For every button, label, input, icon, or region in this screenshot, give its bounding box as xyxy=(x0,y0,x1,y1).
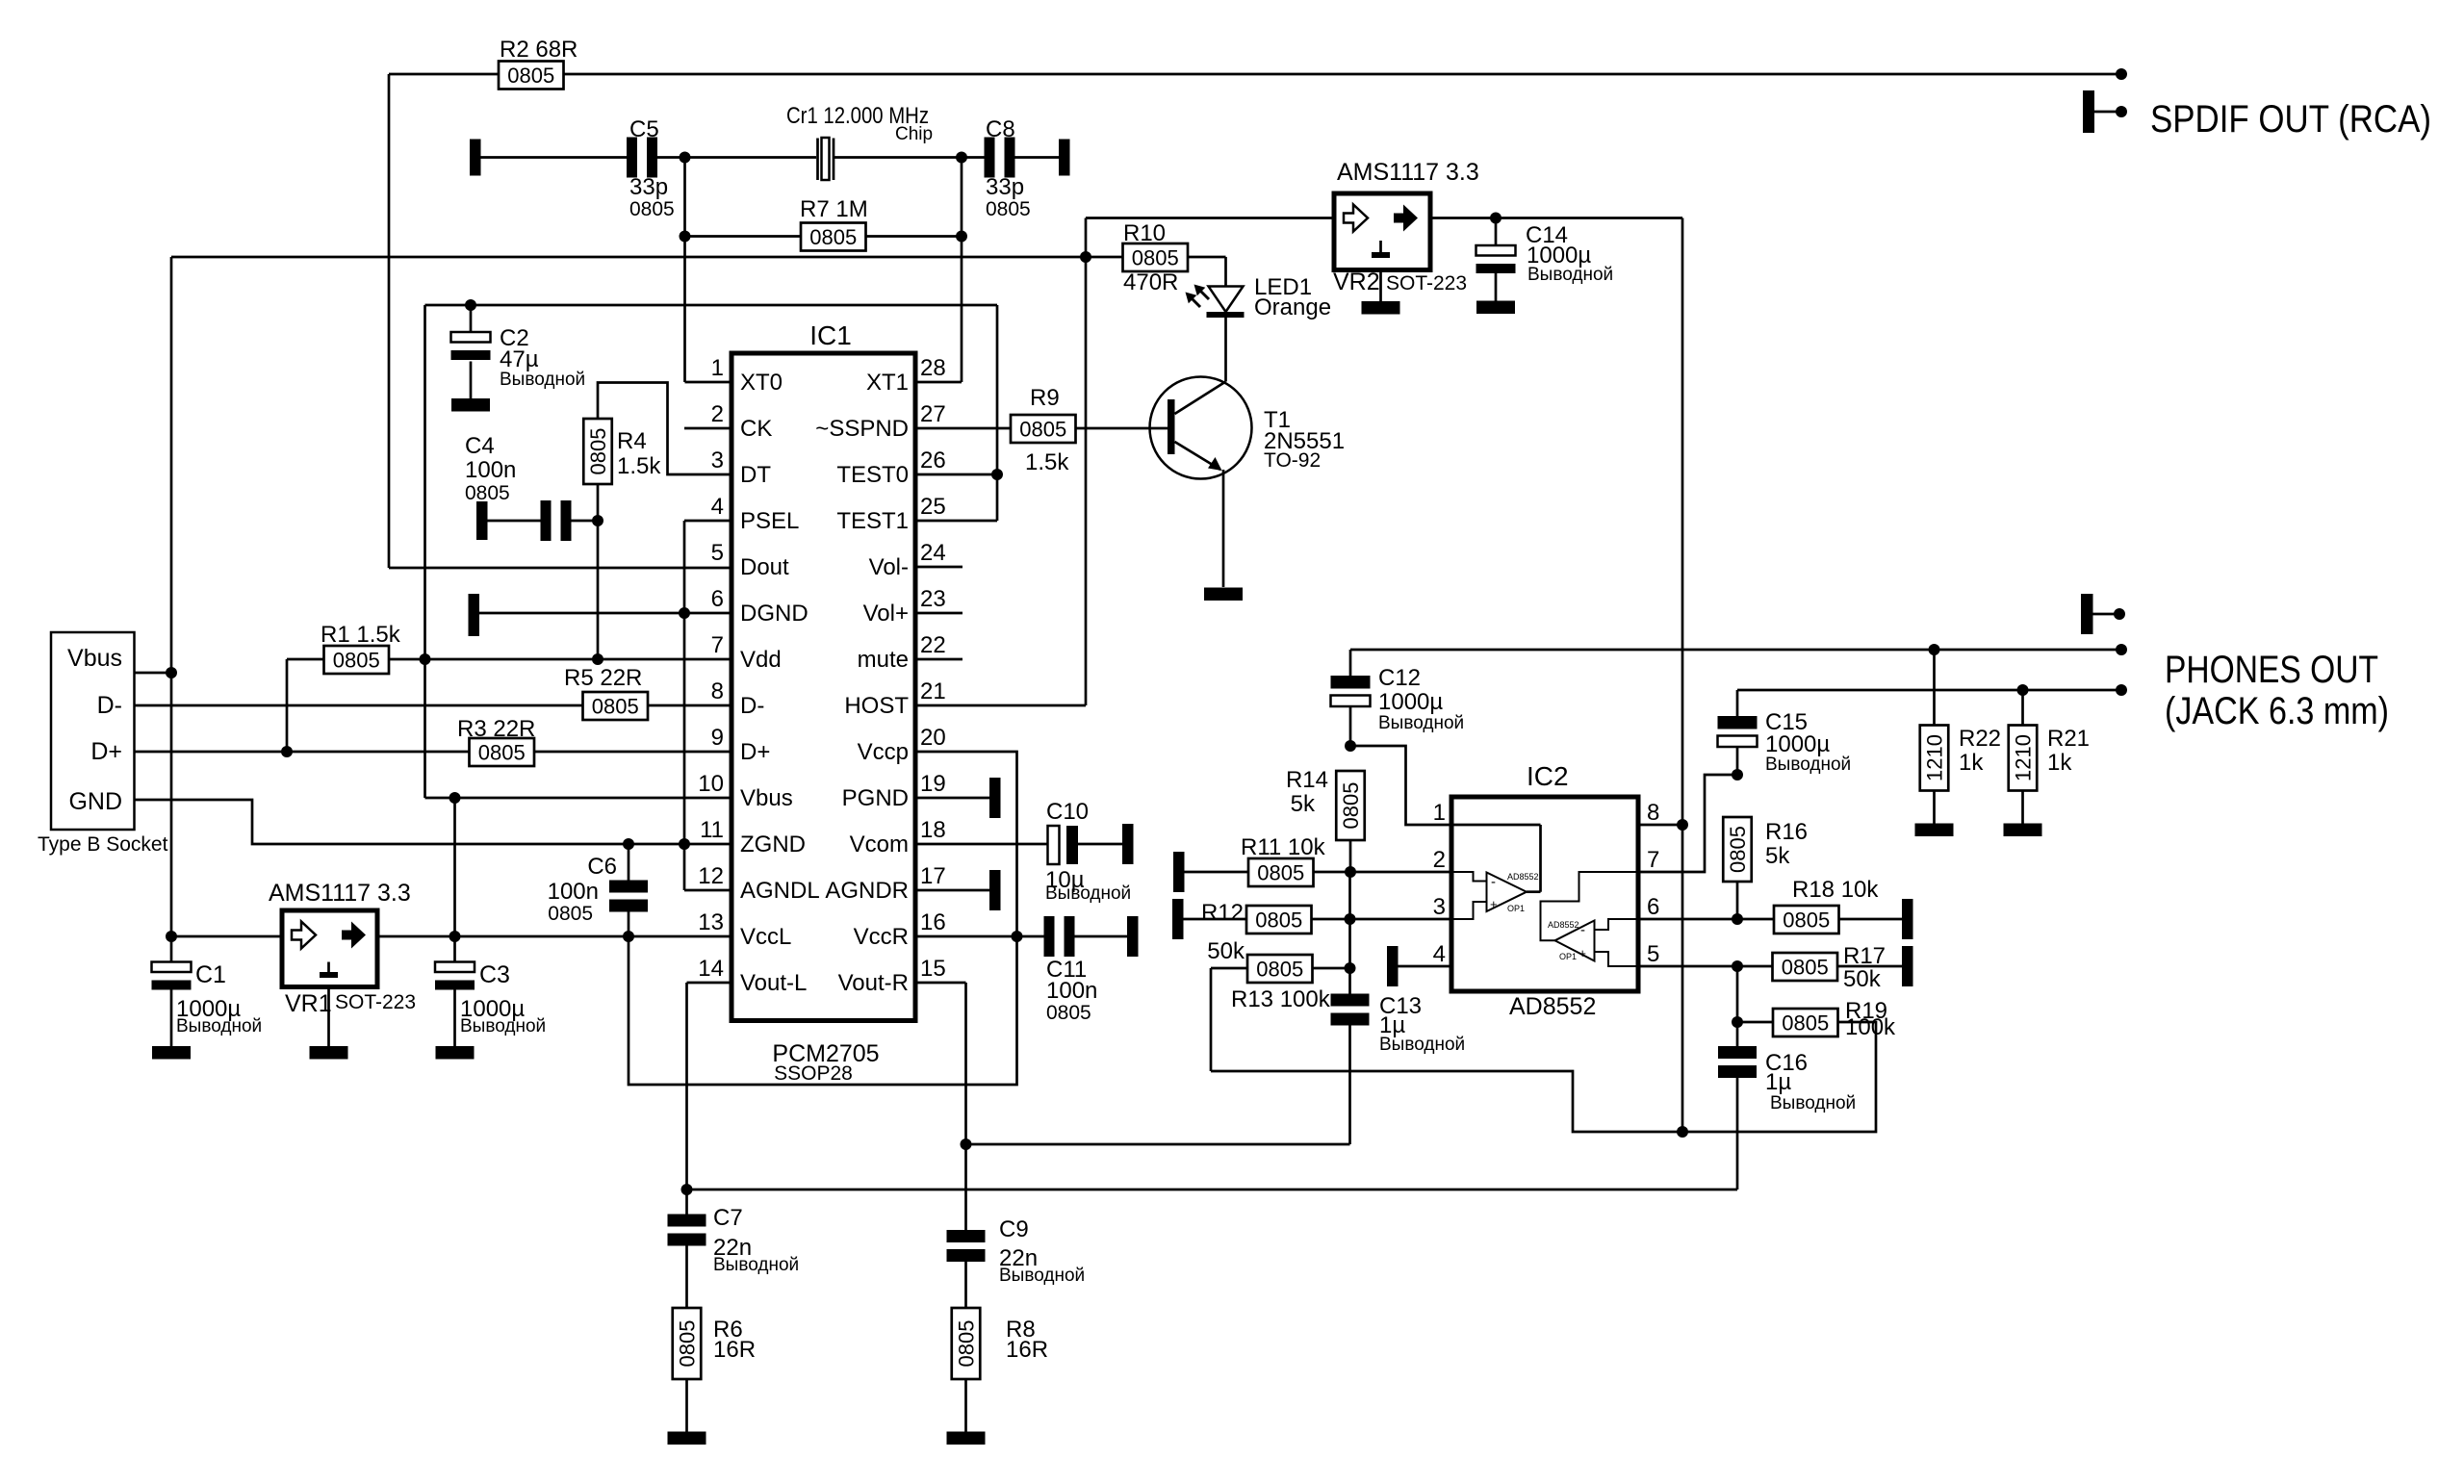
svg-text:0805: 0805 xyxy=(1256,958,1303,982)
node Vbus 3V3 corner xyxy=(449,792,461,804)
node HOST junction xyxy=(1080,251,1091,263)
svg-text:0805: 0805 xyxy=(955,1320,979,1368)
svg-text:1000µ: 1000µ xyxy=(1765,731,1830,757)
svg-text:OP1: OP1 xyxy=(1507,904,1525,913)
svg-text:4: 4 xyxy=(711,494,724,520)
svg-text:1µ: 1µ xyxy=(1765,1069,1791,1095)
svg-text:0805: 0805 xyxy=(1782,956,1829,980)
wire R5 to pin 8 xyxy=(648,704,731,707)
node RCA pin xyxy=(2116,106,2127,117)
svg-text:Выводной: Выводной xyxy=(1045,883,1131,904)
svg-text:D-: D- xyxy=(97,692,122,719)
wire R6 to ground xyxy=(685,1379,688,1432)
wire C12 node to IC2 pin 1 xyxy=(1350,746,1451,825)
svg-text:0805: 0805 xyxy=(1783,908,1830,933)
svg-text:R16: R16 xyxy=(1765,819,1808,845)
svg-text:0805: 0805 xyxy=(478,741,526,765)
node ZGND C6 xyxy=(623,838,634,850)
wire R4 bottom to Vdd xyxy=(597,484,600,659)
wire SSPND to R9 xyxy=(915,427,1011,430)
ground right of R17 xyxy=(1902,946,1913,986)
node R19 C16 xyxy=(1732,1016,1743,1028)
op-amp U2A xyxy=(1451,825,1541,919)
wire R11 left lead xyxy=(1185,871,1249,874)
jack shield connector xyxy=(2081,594,2119,634)
svg-text:Vbus: Vbus xyxy=(67,645,122,672)
capacitor C9 xyxy=(947,1216,1086,1286)
svg-text:Dout: Dout xyxy=(740,554,789,580)
svg-text:470R: 470R xyxy=(1123,269,1178,295)
svg-text:R3 22R: R3 22R xyxy=(457,716,535,742)
svg-text:19: 19 xyxy=(920,771,946,797)
svg-text:20: 20 xyxy=(920,725,946,751)
label SPDIF OUT (RCA) xyxy=(2150,98,2431,141)
wire T1 emitter to ground xyxy=(1222,470,1225,587)
node R14 pin2 xyxy=(1345,866,1356,878)
wire C5 to crystal xyxy=(657,156,816,159)
svg-text:11: 11 xyxy=(700,817,724,843)
svg-text:47µ: 47µ xyxy=(500,346,539,372)
svg-text:Выводной: Выводной xyxy=(999,1266,1085,1286)
svg-text:C12: C12 xyxy=(1378,665,1421,691)
node phones ring R21 xyxy=(2017,684,2029,696)
node pin3 vertical xyxy=(1345,913,1356,925)
wire Vbus vertical and HOST feed xyxy=(171,257,1086,673)
svg-text:Vccp: Vccp xyxy=(858,739,909,765)
svg-text:PSEL: PSEL xyxy=(740,508,799,534)
resistor R8 xyxy=(952,1308,1048,1379)
capacitor C5 xyxy=(627,116,675,220)
svg-text:R4: R4 xyxy=(617,428,647,454)
wire R4 top to DT pin 3 xyxy=(598,383,731,475)
wire Vout-L pin 14 to C7 xyxy=(687,983,732,1215)
wire supply vertical lower xyxy=(1681,825,1684,1132)
svg-text:VccR: VccR xyxy=(854,924,909,950)
svg-text:8: 8 xyxy=(1647,800,1659,826)
node phones tip R22 xyxy=(1929,644,1940,655)
svg-text:0805: 0805 xyxy=(629,198,675,220)
svg-text:16R: 16R xyxy=(713,1337,756,1363)
svg-text:IC1: IC1 xyxy=(809,320,852,350)
capacitor C13 xyxy=(1331,993,1466,1055)
svg-text:9: 9 xyxy=(711,725,724,751)
svg-text:mute: mute xyxy=(858,647,909,673)
wire Vout-L bus xyxy=(687,1189,1738,1191)
node XT0 crystal junction xyxy=(680,152,691,164)
svg-text:Выводной: Выводной xyxy=(1765,755,1851,775)
op-amp U2B xyxy=(1541,872,1639,966)
svg-text:0805: 0805 xyxy=(1339,782,1363,830)
wire R9 to T1 base xyxy=(1076,427,1168,430)
wire pin5 to R19 C16 xyxy=(1736,966,1739,1022)
svg-text:R22: R22 xyxy=(1959,726,2001,752)
svg-text:Выводной: Выводной xyxy=(1527,265,1613,285)
ground IC2 pin 4 xyxy=(1387,946,1451,986)
svg-text:SOT-223: SOT-223 xyxy=(1386,272,1467,294)
svg-text:ZGND: ZGND xyxy=(740,832,806,857)
svg-text:5k: 5k xyxy=(1291,791,1316,817)
wire R17 to ground xyxy=(1837,965,1902,968)
svg-text:6: 6 xyxy=(1647,894,1659,920)
wire C4 to R4 net xyxy=(572,520,599,523)
svg-text:0805: 0805 xyxy=(592,695,639,719)
svg-text:1.5k: 1.5k xyxy=(617,453,661,479)
svg-text:13: 13 xyxy=(698,909,724,935)
connector USB Type B socket xyxy=(38,632,168,856)
node R1 right xyxy=(420,653,431,665)
svg-text:AMS1117 3.3: AMS1117 3.3 xyxy=(269,880,411,907)
svg-text:D+: D+ xyxy=(740,739,770,765)
ground below T1 xyxy=(1204,588,1243,601)
ground PGND pin 19 xyxy=(915,778,1001,818)
svg-text:5k: 5k xyxy=(1765,843,1790,869)
svg-text:3: 3 xyxy=(1433,894,1446,920)
wire Vbus pin 10 line xyxy=(425,797,732,800)
svg-text:-: - xyxy=(1580,922,1585,938)
svg-text:AD8552: AD8552 xyxy=(1509,993,1596,1020)
wire C9 to R8 xyxy=(964,1262,967,1309)
wire Vout-R bus xyxy=(966,1143,1350,1146)
ground left of R11 xyxy=(1173,852,1185,892)
wire R16 to pin6 line xyxy=(1736,882,1739,919)
svg-text:0805: 0805 xyxy=(1782,1011,1829,1036)
svg-text:Выводной: Выводной xyxy=(500,370,585,390)
svg-text:7: 7 xyxy=(1647,847,1659,873)
svg-text:16: 16 xyxy=(920,909,946,935)
ground below C3 xyxy=(436,1046,475,1060)
svg-text:AGNDR: AGNDR xyxy=(825,878,909,904)
wire Dout to R2 left vertical xyxy=(389,74,499,568)
resistor R19 xyxy=(1737,998,1896,1040)
wire Dout line pin 5 xyxy=(389,567,731,570)
svg-text:Выводной: Выводной xyxy=(713,1255,799,1275)
RCA connector SPDIF xyxy=(2083,90,2121,133)
svg-text:24: 24 xyxy=(920,540,946,566)
ground below R8 xyxy=(947,1432,986,1446)
svg-text:7: 7 xyxy=(711,632,724,658)
resistor R7 xyxy=(800,196,868,251)
svg-text:0805: 0805 xyxy=(1257,861,1304,885)
svg-text:Vol-: Vol- xyxy=(869,554,909,580)
svg-text:SSOP28: SSOP28 xyxy=(774,1062,853,1085)
node R13 vertical xyxy=(1345,962,1356,974)
ground right of C11 xyxy=(1127,916,1139,957)
wire R14 to pin 2 line xyxy=(1349,840,1352,872)
resistor R21 xyxy=(2009,690,2090,824)
node Vccp VccR junction xyxy=(1012,931,1023,942)
svg-text:8: 8 xyxy=(711,678,724,704)
svg-text:VccL: VccL xyxy=(740,924,791,950)
wire R10 left lead xyxy=(1086,256,1123,259)
node phones tip end xyxy=(2116,644,2127,655)
transistor T1 2N5551 xyxy=(1150,377,1346,479)
svg-text:17: 17 xyxy=(920,863,946,889)
wire amp supply vertical xyxy=(1681,218,1684,826)
resistor R4 xyxy=(583,419,661,484)
svg-text:SPDIF OUT (RCA): SPDIF OUT (RCA) xyxy=(2150,98,2431,141)
ground right of R18 xyxy=(1902,899,1913,939)
ground below VR1 xyxy=(310,1046,348,1060)
capacitor C1 xyxy=(152,936,263,1046)
svg-text:0805: 0805 xyxy=(548,903,593,925)
svg-text:DT: DT xyxy=(740,462,771,488)
svg-text:HOST: HOST xyxy=(844,693,909,719)
wire 3V3 vertical to rail xyxy=(453,798,456,936)
svg-text:VR2: VR2 xyxy=(1333,269,1380,295)
wire phones ring bus xyxy=(1737,689,2121,692)
svg-text:50k: 50k xyxy=(1207,938,1245,964)
wire R8 to ground xyxy=(964,1379,967,1432)
svg-text:Выводной: Выводной xyxy=(1379,1035,1465,1055)
wire XT0 vertical to pin 1 xyxy=(685,158,732,383)
svg-text:25: 25 xyxy=(920,494,946,520)
svg-text:CK: CK xyxy=(740,416,772,442)
wire phones tip bus xyxy=(1350,649,2121,652)
svg-text:23: 23 xyxy=(920,586,946,612)
node phones ring end xyxy=(2116,684,2127,696)
wire LED1 to T1 collector xyxy=(1224,318,1227,382)
wire pin8 stub xyxy=(1638,824,1682,827)
ground below C1 xyxy=(152,1046,191,1060)
svg-text:0805: 0805 xyxy=(986,198,1031,220)
svg-text:16R: 16R xyxy=(1006,1337,1048,1363)
svg-text:0805: 0805 xyxy=(1132,246,1179,270)
svg-text:14: 14 xyxy=(698,956,724,982)
wire R13 right lead xyxy=(1313,967,1350,970)
svg-text:R5 22R: R5 22R xyxy=(564,665,642,691)
node C2 top xyxy=(465,299,476,311)
svg-text:12: 12 xyxy=(698,863,724,889)
svg-text:R14: R14 xyxy=(1286,767,1328,793)
wire R7 left lead xyxy=(685,235,802,238)
svg-text:27: 27 xyxy=(920,401,946,427)
node R4 Vdd xyxy=(592,653,603,665)
wire USB GND to ZGND xyxy=(135,800,732,844)
svg-text:0805: 0805 xyxy=(1255,908,1302,933)
regulator VR2 AMS1117 3.3 xyxy=(1333,159,1479,295)
ground right of C8 xyxy=(1059,140,1070,176)
wire PSEL stub and vertical to DGND AGNDL xyxy=(684,521,731,890)
svg-text:Type B Socket: Type B Socket xyxy=(38,833,168,856)
svg-text:PHONES OUT: PHONES OUT xyxy=(2165,649,2378,691)
svg-text:1k: 1k xyxy=(2047,750,2072,776)
svg-text:~SSPND: ~SSPND xyxy=(815,416,909,442)
capacitor C6 xyxy=(548,844,648,936)
capacitor C7 xyxy=(668,1205,800,1275)
ground below R6 xyxy=(668,1432,706,1446)
wire R3 to pin 9 xyxy=(534,751,731,754)
regulator VR1 AMS1117 3.3 xyxy=(269,880,416,1017)
svg-text:0805: 0805 xyxy=(465,482,510,504)
svg-text:100n: 100n xyxy=(465,457,516,483)
svg-text:R10: R10 xyxy=(1123,220,1166,246)
svg-text:0805: 0805 xyxy=(1019,418,1066,442)
resistor R14 xyxy=(1286,767,1365,840)
wire CK stub pin 2 xyxy=(684,427,731,430)
svg-text:3: 3 xyxy=(711,448,724,473)
svg-text:TEST1: TEST1 xyxy=(836,508,909,534)
node XT1 crystal junction xyxy=(956,152,967,164)
node SPDIF wire end xyxy=(2116,68,2127,80)
svg-text:AD8552: AD8552 xyxy=(1548,920,1579,930)
svg-text:100k: 100k xyxy=(1845,1014,1896,1040)
wire R7 right lead xyxy=(866,235,962,238)
svg-text:(JACK 6.3 mm): (JACK 6.3 mm) xyxy=(2165,690,2389,732)
svg-text:C5: C5 xyxy=(629,116,659,142)
svg-text:6: 6 xyxy=(711,586,724,612)
svg-text:R7 1M: R7 1M xyxy=(800,196,868,222)
ground below R21 xyxy=(2004,824,2042,837)
svg-text:C3: C3 xyxy=(479,961,510,988)
node Vbus junction xyxy=(166,667,177,678)
svg-text:0805: 0805 xyxy=(676,1320,700,1368)
wire R12 left lead xyxy=(1184,918,1247,921)
svg-text:C8: C8 xyxy=(986,116,1015,142)
resistor R10 xyxy=(1123,220,1189,295)
svg-text:AD8552: AD8552 xyxy=(1507,872,1539,882)
node R7 left xyxy=(680,231,691,243)
wire VR2 ground pin xyxy=(1379,270,1382,302)
svg-text:1: 1 xyxy=(711,355,724,381)
wire C16 to Vout-L bus xyxy=(1736,1078,1739,1190)
wire Vol+ stub pin 23 xyxy=(915,612,962,615)
svg-text:0805: 0805 xyxy=(1046,1002,1091,1024)
svg-text:1: 1 xyxy=(1433,800,1446,826)
wire R11 to IC2 pin 2 xyxy=(1314,871,1452,874)
ground below R22 xyxy=(1915,824,1954,837)
node R16 pin6 xyxy=(1732,913,1743,925)
svg-text:C6: C6 xyxy=(587,854,617,880)
svg-text:21: 21 xyxy=(920,678,946,704)
ground left of R12 xyxy=(1172,899,1184,939)
svg-text:R12: R12 xyxy=(1201,900,1244,926)
svg-text:XT1: XT1 xyxy=(866,370,909,396)
svg-text:33p: 33p xyxy=(629,174,668,200)
capacitor C14 xyxy=(1476,218,1614,301)
svg-text:1210: 1210 xyxy=(2012,734,2036,781)
wire Vbus down to VR1 input xyxy=(171,673,282,936)
svg-text:4: 4 xyxy=(1433,941,1446,967)
wire 3.3V to TEST0 TEST1 rail xyxy=(425,305,998,521)
svg-text:+: + xyxy=(1578,946,1586,960)
wire R19 right to supply bus xyxy=(1211,1022,1876,1132)
wire R18 to ground xyxy=(1839,918,1903,921)
svg-text:0805: 0805 xyxy=(333,649,380,673)
wire Vccp loop to VccL xyxy=(629,752,1017,1085)
svg-text:Vdd: Vdd xyxy=(740,647,782,673)
svg-text:28: 28 xyxy=(920,355,946,381)
svg-text:2: 2 xyxy=(711,401,724,427)
capacitor C15 xyxy=(1718,690,1852,775)
svg-text:50k: 50k xyxy=(1843,966,1882,992)
resistor R13 xyxy=(1231,955,1331,1012)
wire pin6 line xyxy=(1638,918,1774,921)
wire Vdd line xyxy=(389,658,731,661)
svg-text:10: 10 xyxy=(698,771,724,797)
node DGND junction xyxy=(679,607,690,619)
capacitor C8 xyxy=(985,116,1031,220)
resistor R17 xyxy=(1773,943,1886,992)
svg-text:OP1: OP1 xyxy=(1559,952,1577,961)
node supply bottom bus xyxy=(1677,1126,1688,1138)
svg-text:C4: C4 xyxy=(465,433,495,459)
svg-text:Выводной: Выводной xyxy=(1378,713,1464,733)
wire 3.3V vertical C2 loop xyxy=(423,305,426,798)
svg-text:0805: 0805 xyxy=(1726,826,1750,873)
capacitor C12 xyxy=(1331,650,1465,746)
svg-text:18: 18 xyxy=(920,817,946,843)
capacitor C2 xyxy=(451,305,586,398)
svg-text:Vbus: Vbus xyxy=(740,785,793,811)
wire R1 left to D+ xyxy=(287,659,324,752)
svg-text:TEST0: TEST0 xyxy=(836,462,909,488)
wire Vbus pin xyxy=(135,672,172,675)
svg-text:26: 26 xyxy=(920,448,946,473)
wire R12 to IC2 pin 3 xyxy=(1312,918,1452,921)
svg-text:Выводной: Выводной xyxy=(1770,1093,1856,1113)
node pin5 R19 xyxy=(1732,960,1743,972)
capacitor C4 xyxy=(465,433,572,541)
svg-text:Выводной: Выводной xyxy=(460,1016,546,1036)
svg-text:R11 10k: R11 10k xyxy=(1241,834,1326,860)
wire R2 to SPDIF OUT xyxy=(564,73,2122,76)
resistor R11 xyxy=(1241,834,1326,886)
svg-text:R1 1.5k: R1 1.5k xyxy=(321,622,401,648)
svg-text:1000µ: 1000µ xyxy=(1378,689,1443,715)
svg-text:R2 68R: R2 68R xyxy=(500,37,577,63)
svg-text:R13 100k: R13 100k xyxy=(1231,986,1331,1012)
node pin8 supply xyxy=(1677,819,1688,831)
resistor R22 xyxy=(1920,650,2001,824)
node Vout-R bus xyxy=(961,1139,972,1150)
svg-text:5: 5 xyxy=(1647,941,1659,967)
svg-text:C10: C10 xyxy=(1046,799,1089,825)
svg-text:1210: 1210 xyxy=(1923,734,1947,781)
node C15 R16 xyxy=(1732,769,1743,780)
svg-text:1.5k: 1.5k xyxy=(1025,449,1069,475)
wire R13 left to Vout bus riser xyxy=(1211,968,1247,1071)
svg-text:AGNDL: AGNDL xyxy=(740,878,820,904)
LED LED1 Orange xyxy=(1186,274,1332,320)
svg-text:XT0: XT0 xyxy=(740,370,783,396)
node C4 R4 junction xyxy=(592,515,603,526)
node Vout-L bus xyxy=(681,1184,693,1195)
capacitor C11 xyxy=(1044,916,1128,1024)
svg-text:SOT-223: SOT-223 xyxy=(335,991,416,1013)
wire pin7 to C15 node xyxy=(1638,775,1737,872)
ground right of C10 xyxy=(1122,824,1134,864)
svg-text:AMS1117 3.3: AMS1117 3.3 xyxy=(1337,159,1479,186)
svg-text:C1: C1 xyxy=(195,961,226,988)
svg-text:R21: R21 xyxy=(2047,726,2090,752)
wire mute stub pin 22 xyxy=(915,658,962,661)
svg-text:Выводной: Выводной xyxy=(176,1016,262,1036)
svg-text:15: 15 xyxy=(920,956,946,982)
svg-text:D+: D+ xyxy=(90,738,122,765)
wire D- line xyxy=(135,704,583,707)
crystal Cr1 12.000 MHz xyxy=(786,103,933,180)
svg-text:C9: C9 xyxy=(999,1216,1029,1242)
wire C13 to Vout-R bus xyxy=(1348,1025,1351,1145)
wire VccR line xyxy=(915,935,1045,938)
node C14 junction xyxy=(1490,213,1501,224)
svg-text:5: 5 xyxy=(711,540,724,566)
wire VR1 ground pin xyxy=(327,987,330,1047)
resistor R12 xyxy=(1201,900,1312,964)
node C12 R14 pin1 xyxy=(1345,740,1356,752)
svg-text:DGND: DGND xyxy=(740,601,808,627)
svg-text:+: + xyxy=(1490,897,1498,911)
